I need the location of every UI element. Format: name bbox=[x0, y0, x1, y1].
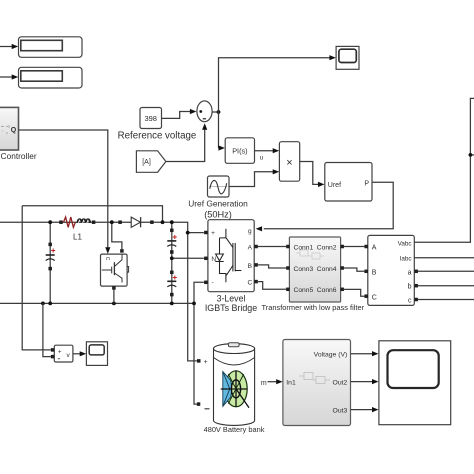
svg-text:Iabc: Iabc bbox=[400, 255, 412, 262]
svg-text:Conn5: Conn5 bbox=[294, 287, 314, 294]
svg-text:g: g bbox=[248, 228, 252, 235]
svg-text:Uref: Uref bbox=[328, 182, 341, 189]
svg-text:+: + bbox=[204, 359, 208, 366]
svg-text:B: B bbox=[372, 269, 377, 276]
svg-text:+: + bbox=[211, 230, 215, 237]
svg-text:IGBTs Bridge: IGBTs Bridge bbox=[205, 303, 257, 313]
svg-text:Voltage (V): Voltage (V) bbox=[314, 351, 348, 358]
svg-text:m: m bbox=[261, 380, 267, 387]
svg-text:Vabc: Vabc bbox=[398, 240, 412, 247]
svg-text:+: + bbox=[58, 349, 62, 355]
svg-text:B: B bbox=[248, 263, 252, 270]
svg-text:Conn3: Conn3 bbox=[294, 266, 314, 273]
svg-text:L1: L1 bbox=[73, 233, 82, 242]
svg-text:398: 398 bbox=[144, 114, 157, 123]
svg-text:×: × bbox=[286, 157, 292, 169]
svg-text:3-Level: 3-Level bbox=[217, 293, 246, 303]
svg-text:Controller: Controller bbox=[1, 151, 37, 161]
svg-text:Q: Q bbox=[11, 127, 17, 134]
svg-text:a: a bbox=[408, 269, 412, 276]
svg-text:P: P bbox=[364, 180, 369, 187]
svg-text:u: u bbox=[260, 155, 264, 162]
svg-text:Out2: Out2 bbox=[333, 379, 348, 386]
svg-text:Reference voltage: Reference voltage bbox=[118, 131, 197, 142]
svg-text:PI(s): PI(s) bbox=[232, 147, 247, 156]
svg-text:Conn6: Conn6 bbox=[317, 287, 337, 294]
svg-text:c: c bbox=[408, 298, 412, 305]
svg-text:Uref Generation: Uref Generation bbox=[188, 198, 248, 208]
svg-text:C: C bbox=[372, 294, 377, 301]
svg-text:A: A bbox=[372, 245, 377, 252]
svg-text:C: C bbox=[247, 280, 252, 287]
svg-text:-: - bbox=[212, 280, 214, 287]
svg-text:b: b bbox=[408, 284, 412, 291]
svg-text:[A]: [A] bbox=[142, 159, 151, 166]
svg-text:C: C bbox=[104, 257, 110, 261]
svg-text:(50Hz): (50Hz) bbox=[204, 210, 232, 220]
svg-text:Transformer with low pass filt: Transformer with low pass filter bbox=[261, 303, 364, 312]
svg-text:Conn4: Conn4 bbox=[317, 266, 337, 273]
svg-text:Conn2: Conn2 bbox=[317, 244, 337, 251]
svg-text:480V Battery bank: 480V Battery bank bbox=[204, 425, 265, 434]
svg-text:In1: In1 bbox=[286, 379, 296, 386]
svg-text:A: A bbox=[248, 245, 253, 252]
svg-text:Out3: Out3 bbox=[333, 407, 348, 414]
